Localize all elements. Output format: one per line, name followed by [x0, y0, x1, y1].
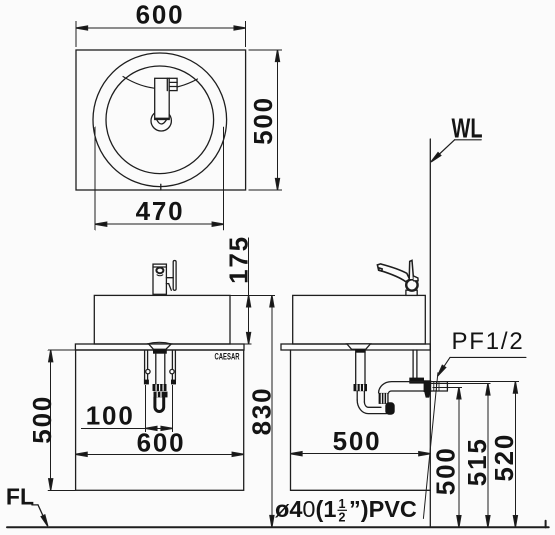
svg-text:FL: FL: [6, 484, 34, 510]
supply pipe (side): [412, 350, 414, 378]
drain locknut (side): [355, 349, 366, 352]
extension lines right dims: [431, 382, 519, 388]
svg-text:(1: (1: [316, 496, 337, 522]
dimension 515 (side right): [487, 384, 489, 528]
svg-text:0: 0: [302, 496, 315, 522]
floor line FL: [7, 526, 549, 528]
countertop square (top view): [76, 50, 246, 190]
basin box (front): [94, 295, 230, 344]
spout tip nub (side): [379, 268, 383, 271]
dimension 830 (front): [271, 295, 273, 527]
svg-text:600: 600: [136, 0, 185, 30]
svg-text:515: 515: [462, 437, 492, 486]
right supply hose (front): [171, 351, 173, 380]
svg-text:ø4: ø4: [275, 496, 302, 522]
outlet bend to wall (side): [379, 382, 431, 393]
svg-text:1: 1: [339, 497, 346, 511]
svg-text:600: 600: [137, 428, 186, 458]
drain flange trapezoid (side): [347, 344, 371, 349]
svg-text:PF1/2: PF1/2: [451, 328, 524, 355]
countertop slab (front): [75, 344, 244, 350]
trap nut vertical (side): [379, 393, 389, 404]
svg-text:520: 520: [489, 433, 519, 482]
left supply hose (front): [144, 351, 146, 380]
countertop slab (side): [281, 344, 430, 350]
faucet shank (side): [406, 290, 417, 295]
faucet spout tip lines (top view): [155, 117, 170, 119]
supply wall fitting PF1/2 (side): [409, 378, 424, 384]
svg-text:100: 100: [86, 400, 135, 430]
svg-text:500: 500: [333, 426, 382, 456]
dimension 500 (front left): [48, 350, 75, 490]
drop pipe and elbow (side): [356, 391, 358, 400]
wall flange (side): [424, 380, 432, 392]
center mark at square bottom: [160, 184, 162, 190]
basin back ledge arc (top view): [123, 77, 198, 89]
U bend trap (front): [155, 397, 164, 411]
dimension 500 (top view right): [249, 50, 282, 190]
basin inner circle (top view): [106, 66, 214, 174]
coupling nut (front): [153, 384, 167, 391]
drain tailpiece (front): [155, 354, 157, 384]
drain flange trapezoid (front): [149, 344, 172, 349]
trap cap below (side): [385, 402, 394, 414]
faucet body (front): [153, 264, 166, 294]
drain locknut (front): [153, 349, 167, 353]
FL leader: [32, 505, 47, 525]
svg-text:2: 2: [339, 511, 346, 525]
faucet handle blade (front): [173, 261, 176, 291]
svg-text:500: 500: [248, 96, 278, 145]
faucet spout (side): [377, 264, 409, 282]
dimension 520 (side right): [514, 382, 516, 528]
WL leader: [433, 140, 482, 161]
faucet body circle (side): [406, 279, 417, 290]
svg-text:WL: WL: [452, 113, 483, 144]
dimension 600 (top): [76, 22, 246, 47]
cabinet (side): [290, 350, 292, 490]
drain tailpiece (side): [355, 353, 357, 384]
svg-text:175: 175: [224, 235, 254, 284]
faucet body (top view): [155, 78, 170, 119]
coupling nut (side): [354, 384, 368, 391]
faucet spout circle (top view): [151, 111, 171, 131]
pipe through wall (side): [431, 381, 447, 383]
basin bottom bump above counter (front): [147, 342, 172, 344]
basin box (side): [293, 295, 426, 344]
faucet handle box (top view): [169, 78, 177, 90]
dimension 175 (front): [248, 238, 250, 344]
faucet lever handle (side): [409, 260, 413, 279]
svg-text:500: 500: [430, 446, 460, 495]
trap nut 2 (front): [154, 392, 168, 398]
PF1/2 leader: [439, 357, 526, 374]
svg-text:830: 830: [247, 387, 277, 436]
rim extension line (front): [230, 294, 275, 296]
svg-text:”)PVC: ”)PVC: [349, 496, 417, 522]
text: pipe spec Ø40(1 1/2")PVC: [275, 496, 417, 525]
faucet spout opening (front): [156, 268, 163, 274]
wall line WL: [429, 139, 431, 527]
dimension 600 (front): [76, 453, 244, 455]
cabinet box (front): [76, 350, 244, 490]
PVC leader: [423, 373, 438, 519]
svg-text:CAESAR: CAESAR: [215, 351, 240, 361]
svg-text:500: 500: [27, 395, 57, 444]
dimension 500 depth (side): [291, 453, 431, 455]
svg-text:470: 470: [136, 196, 185, 226]
dimension 100 (front): [82, 386, 173, 432]
basin outer circle (top view): [93, 53, 227, 187]
dimension 470 (top view bottom): [95, 127, 224, 230]
dimension 500 (side right): [458, 387, 460, 527]
